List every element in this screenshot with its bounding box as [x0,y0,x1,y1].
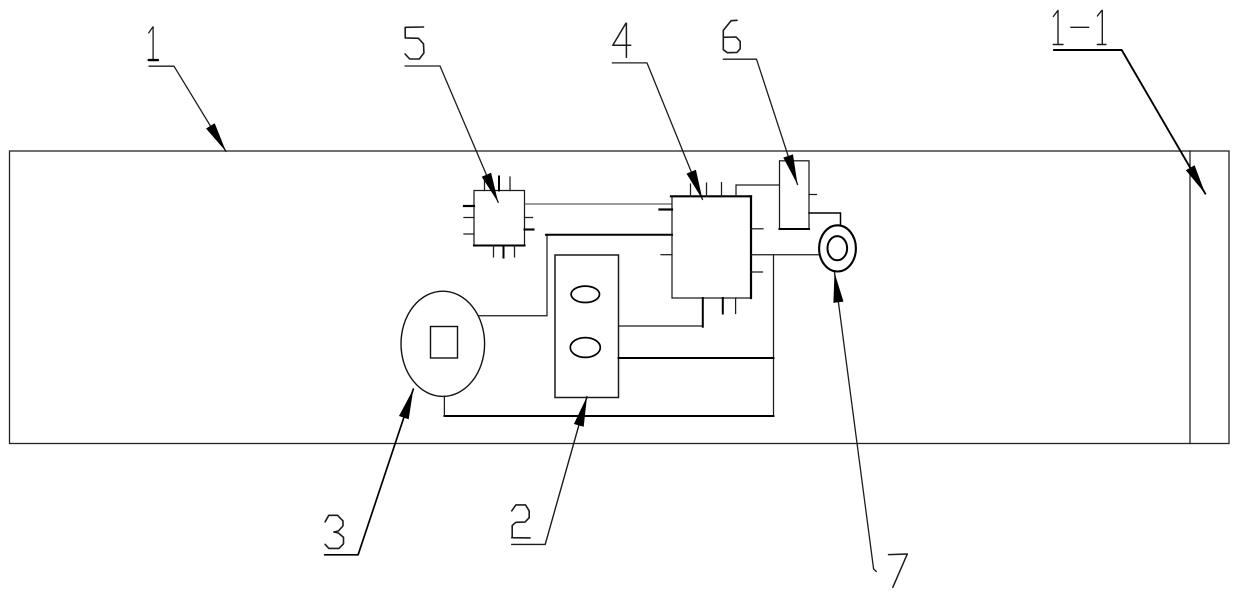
leader line 7 [835,273,877,572]
label digit 5 [405,27,424,59]
chip U5 bottom bold edge [474,244,525,246]
leader line 6 [723,59,797,184]
module 4 bold right edge [750,196,752,298]
chip U5 body [474,191,525,246]
vertical return wire right of battery box [773,255,775,416]
module 4 bold top edge [671,195,751,197]
label digit 4 [613,23,631,57]
leader line 1 [149,66,226,151]
module 4 bottom pins [722,298,724,314]
wire wheel 3 bottom to bus [443,396,445,416]
chip U5 left pins [464,205,474,207]
wheel 3 outer ellipse [401,291,485,396]
module 6 right pin [809,194,817,196]
wire module 6 to roller 7 [809,213,841,226]
wheel 3 inner square [431,327,458,359]
battery cell ellipse upper [571,286,599,302]
arrowhead 7 [833,273,843,303]
label digit 6 [723,20,740,52]
leader line 4 [612,63,702,200]
wire module 4 top to module 6 [736,185,780,196]
arrowhead 1-1 [1186,165,1206,194]
label digit 1 [149,27,153,59]
roller 7 inner ring [828,236,848,260]
arrowhead 5 [482,173,499,203]
chip U5 right pins [525,217,533,219]
label digit 3 [325,515,343,548]
module 4 body [672,196,751,298]
chip U5 bottom pins [493,246,495,258]
leader line 5 [405,66,498,202]
module 6 body [780,161,810,229]
arrowhead 3 [399,389,413,419]
module 4 right pins [751,228,763,230]
leader line 2 [512,397,587,545]
chip U5 top pins [484,177,486,191]
section line 1-1 (vertical line near right edge) [1189,151,1191,444]
module 4 left pins [660,208,673,210]
label digit 7 [889,554,908,587]
arrowhead 2 [574,397,587,427]
leader line 3 [325,389,414,555]
bottom bus wire [444,415,773,417]
wire battery box 2 rightward [619,325,703,327]
arrowhead 1 [206,123,226,151]
battery box 2 body [555,255,619,398]
arrowhead 6 [783,154,797,184]
body outline 1 (housing rectangle) [10,151,1230,444]
wire battery box 2 to vertical return wire [619,357,774,359]
label digit 2 [512,505,530,538]
module 6 bold bottom edge [780,228,810,230]
leader line 1-1 [1054,50,1206,194]
module 4 top pins [690,184,692,196]
label digits 1-1 [1053,11,1106,45]
wire module 4 to roller 7 [751,254,820,256]
bold wire up into module 4 bottom [702,298,704,327]
battery cell ellipse lower [570,338,600,358]
arrowhead 4 [687,170,703,200]
wire wheel 3 to vertical riser [479,235,548,316]
roller 7 outer ring [819,225,856,271]
wire chip U5 to module 4 [525,203,673,205]
bold wire riser to module 4 left [546,234,672,236]
